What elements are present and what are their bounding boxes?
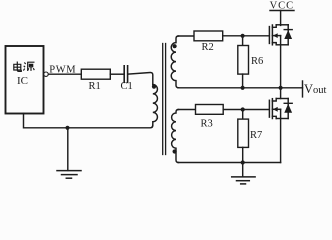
label 电源 (hand-drawn CJK) xyxy=(14,62,35,72)
capacitor C1 xyxy=(123,66,125,83)
middle stub (source) xyxy=(272,35,280,37)
wire R2 to gate of Q1 xyxy=(223,35,270,37)
node junction R6/Vout rail xyxy=(241,86,245,90)
transformer T1 primary winding xyxy=(153,85,158,126)
node junction R3/R7 xyxy=(241,107,245,111)
ground GND2 xyxy=(232,177,255,184)
wire winding B top to R3 xyxy=(178,109,196,111)
svg-text:Vout: Vout xyxy=(304,82,327,96)
svg-text:IC: IC xyxy=(17,75,28,87)
transformer secondary winding A (top) xyxy=(171,36,178,88)
body diode D1 triangle xyxy=(284,30,292,39)
wire primary bottom to IC ground rail xyxy=(24,114,153,128)
loop bottom xyxy=(276,118,288,120)
node junction R7/ground rail xyxy=(241,160,245,164)
node PWM terminal circle on IC xyxy=(44,72,48,76)
wire PWM output from IC to R1 xyxy=(48,73,81,75)
diode branch vertical xyxy=(287,25,289,45)
body diode D2 cathode bar xyxy=(284,102,292,104)
source vertical down to rail xyxy=(280,36,282,88)
resistor R1 xyxy=(81,69,110,79)
svg-text:R2: R2 xyxy=(202,42,214,53)
body diode D2 triangle xyxy=(284,104,292,113)
bottom stub xyxy=(272,116,276,118)
ground GND1 xyxy=(57,171,81,179)
svg-text:VCC: VCC xyxy=(270,1,295,12)
resistor R2 xyxy=(194,31,223,41)
loop top xyxy=(276,98,288,100)
node Vout terminal tick xyxy=(302,81,304,97)
node secondary B polarity dot xyxy=(173,149,177,153)
source vertical down to ground rail xyxy=(280,109,282,162)
transformer secondary winding B (bottom) xyxy=(172,110,179,163)
middle stub (source) xyxy=(272,108,280,110)
node junction primary-ground xyxy=(65,126,69,130)
wire junction to ground symbol xyxy=(242,163,244,177)
resistor R7 xyxy=(238,119,249,147)
transistor Q1 (top MOSFET with body diode) xyxy=(269,25,292,88)
wire junction down to R6 xyxy=(242,36,244,46)
svg-text:R1: R1 xyxy=(89,81,101,92)
transformer core lines xyxy=(162,44,164,155)
wire R3 to gate of Q2 xyxy=(223,109,269,111)
bottom stub xyxy=(272,43,276,45)
gate bar xyxy=(268,100,270,117)
wire R6 bottom to Vout rail xyxy=(242,74,244,88)
wire winding A top to R2 xyxy=(178,35,194,37)
IC U1 电源IC box xyxy=(6,46,44,114)
channel bar xyxy=(271,25,273,45)
gate bar xyxy=(268,27,270,44)
resistor R6 xyxy=(238,46,249,75)
wire VCC to Q1 drain xyxy=(280,11,282,26)
node secondary A polarity dot xyxy=(173,44,177,48)
wire junction to ground xyxy=(67,128,69,171)
svg-text:R6: R6 xyxy=(251,56,263,67)
node junction R2/R6 xyxy=(241,34,245,38)
电 xyxy=(14,62,21,72)
top stub xyxy=(272,99,276,102)
wire ground rail (winding B bottom to Q2 source) xyxy=(178,162,281,164)
resistor R3 xyxy=(196,105,224,115)
arrow on middle stub xyxy=(273,33,278,38)
diode branch vertical xyxy=(287,99,289,119)
源 xyxy=(23,63,25,71)
arrow on middle stub xyxy=(273,107,278,112)
VCC rail bar xyxy=(270,10,294,12)
wire rail to Q2 drain xyxy=(280,88,282,99)
body diode D1 cathode bar xyxy=(284,29,292,31)
loop bottom xyxy=(276,44,288,46)
transistor Q2 (bottom MOSFET with body diode) xyxy=(269,88,292,163)
svg-text:R3: R3 xyxy=(201,119,213,130)
node junction Q1 source / Q2 drain on rail xyxy=(279,86,283,90)
loop top xyxy=(276,24,288,26)
svg-text:PWM: PWM xyxy=(49,64,76,75)
wire Vout rail xyxy=(178,87,303,89)
svg-text:R7: R7 xyxy=(250,130,262,141)
channel bar xyxy=(271,99,273,119)
top stub xyxy=(272,25,276,28)
wire junction down to R7 xyxy=(242,110,244,120)
svg-text:C1: C1 xyxy=(121,81,133,92)
node primary polarity dot xyxy=(152,85,156,89)
wire R7 bottom to ground rail xyxy=(242,147,244,162)
wire R1 to C1 xyxy=(110,73,123,75)
wire C1 to transformer primary xyxy=(128,72,153,84)
